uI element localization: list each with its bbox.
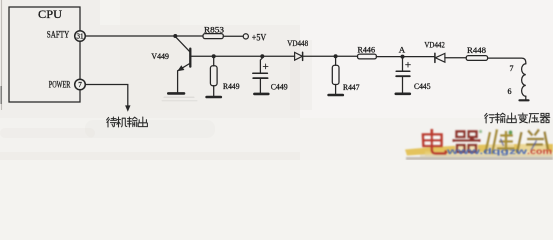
capacitor C445 plus sign xyxy=(406,62,411,67)
wire: C449 stub xyxy=(260,56,262,73)
char 待 xyxy=(107,117,117,127)
wire: R446 to node A xyxy=(376,56,434,58)
chinese text 行输出变压器 (line output transformer), hand drawn xyxy=(485,113,550,123)
watermark char 器 (dark red) xyxy=(453,131,481,154)
pin 31 circle xyxy=(75,31,86,42)
wire: pin31 to R853 xyxy=(85,35,203,37)
transformer winding pins 7-6 xyxy=(522,64,526,96)
capacitor C449 plus sign xyxy=(263,64,268,69)
svg-text:POWER: POWER xyxy=(49,80,71,90)
wire: R449 stub xyxy=(213,56,215,66)
svg-text:R446: R446 xyxy=(358,45,376,55)
scan left edge artifact xyxy=(1,0,3,110)
ground (C445) xyxy=(396,93,410,96)
resistor R446 body xyxy=(358,54,377,59)
node: collector junction xyxy=(173,34,177,38)
char 器 xyxy=(540,113,550,122)
node: R447 top xyxy=(334,54,338,58)
bottom scan strip xyxy=(406,157,553,160)
transistor V449 base bar xyxy=(189,49,191,67)
capacitor C449 plates xyxy=(253,72,268,74)
ground (C449) xyxy=(254,93,268,96)
watermark char 修 (olive+blue) xyxy=(517,130,548,154)
svg-text:C445: C445 xyxy=(414,81,431,91)
diode VD448 xyxy=(295,52,303,60)
svg-text:R853: R853 xyxy=(204,25,224,35)
wire: C445 to ground xyxy=(402,76,404,93)
diode VD442 (cathode left) xyxy=(434,53,436,62)
svg-text:R448: R448 xyxy=(467,45,486,55)
pin 7 circle xyxy=(75,79,86,90)
resistor R853 body xyxy=(203,34,223,39)
wire: C449 to ground xyxy=(259,78,261,93)
svg-text:CPU: CPU xyxy=(38,9,63,21)
svg-text:V449: V449 xyxy=(151,51,169,61)
watermark 电器维修 logo bottom right xyxy=(405,129,553,160)
transistor V449 collector xyxy=(175,37,190,52)
svg-text:A: A xyxy=(399,44,406,54)
node: R449 top xyxy=(212,54,216,58)
arrowhead (standby output) xyxy=(125,105,130,111)
resistor R449 body xyxy=(210,66,217,86)
capacitor C445 plates xyxy=(396,70,410,72)
watermark char 电 (red) xyxy=(423,129,447,153)
ground (R447) xyxy=(329,94,343,97)
char 输 xyxy=(495,113,505,123)
svg-text:31: 31 xyxy=(77,33,84,41)
svg-text:+5V: +5V xyxy=(252,33,267,43)
svg-text:7: 7 xyxy=(510,64,514,73)
wire: VD448 to R446 xyxy=(303,55,358,57)
yellow band xyxy=(405,144,553,156)
wire: R448 to transformer corner xyxy=(488,58,526,64)
char 变 xyxy=(518,113,527,123)
node A junction xyxy=(401,55,405,59)
transistor V449 emitter xyxy=(178,63,190,92)
char 行 xyxy=(485,113,495,123)
ground (V449 emitter) xyxy=(168,92,184,95)
svg-text:.com: .com xyxy=(527,146,552,156)
char 出 xyxy=(138,117,147,127)
node: C449 top xyxy=(260,54,264,58)
svg-text:6: 6 xyxy=(508,87,512,96)
svg-text:C449: C449 xyxy=(271,82,288,92)
wire: VD442 to R448 xyxy=(445,57,466,59)
wire: pin 7 to standby arrow xyxy=(85,85,127,107)
svg-text:www.dqgzw: www.dqgzw xyxy=(445,146,527,156)
resistor R447 body xyxy=(332,65,339,84)
resistor R448 body xyxy=(466,56,487,61)
labels (latin) xyxy=(38,9,514,96)
char 机 xyxy=(117,117,127,127)
char 压 xyxy=(529,114,539,123)
svg-text:7: 7 xyxy=(78,81,82,89)
wire: C445 stub xyxy=(402,57,404,72)
svg-text:R449: R449 xyxy=(223,81,240,91)
CPU box xyxy=(9,7,80,102)
scan texture patches xyxy=(85,120,215,138)
wire: winding bottom terminal xyxy=(525,96,527,100)
ground (R449) xyxy=(207,96,221,99)
char 出 xyxy=(507,113,516,123)
chinese text 待机输出 (standby output), hand drawn xyxy=(107,117,148,127)
svg-text:VD442: VD442 xyxy=(424,40,445,50)
+5V terminal xyxy=(243,34,248,39)
wire: R447 stub xyxy=(335,56,337,65)
svg-text:R447: R447 xyxy=(343,82,360,92)
watermark char 维 (olive/yellow) xyxy=(486,130,515,155)
wire: R449 to ground xyxy=(213,86,215,97)
transistor V449 emitter arrowhead xyxy=(177,65,184,71)
wire: main rail base to VD448 xyxy=(190,55,294,57)
char 输 xyxy=(127,117,137,127)
green dot accent xyxy=(509,131,513,135)
svg-text:SAFTY: SAFTY xyxy=(47,30,70,40)
wire: R447 to ground xyxy=(335,85,337,95)
wire: R853 to +5V xyxy=(223,35,243,37)
svg-text:VD448: VD448 xyxy=(287,38,308,48)
watermark url text xyxy=(445,146,552,156)
paper background xyxy=(0,0,553,160)
